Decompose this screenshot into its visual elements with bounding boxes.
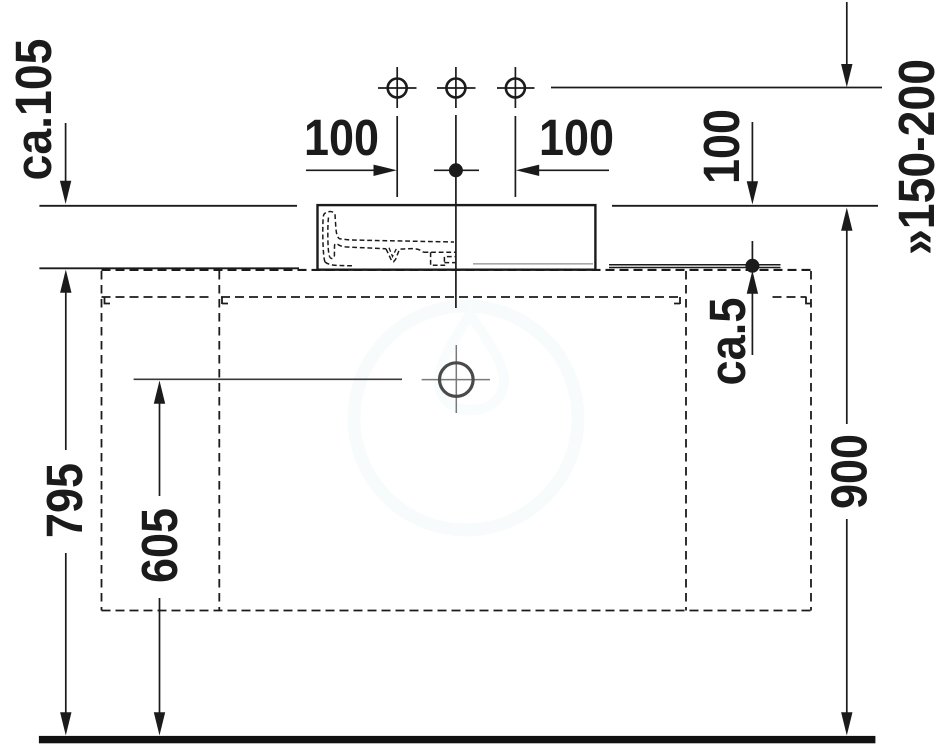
- faucet hole circle left: [388, 79, 407, 98]
- bracket hook outer left: [105, 297, 111, 304]
- countertop top line left: [39, 205, 297, 207]
- basin hidden profile: drain funnel V: [386, 249, 424, 262]
- basin inner shadow line: [473, 263, 593, 265]
- dim 795 arrowhead down: [60, 712, 71, 735]
- extension line left faucet: [396, 116, 398, 197]
- dim 900 arrowhead down: [841, 712, 852, 735]
- dim 100 right arrowhead: [516, 165, 539, 176]
- watermark ring: [354, 306, 578, 530]
- dim 795 upper line: [65, 292, 67, 450]
- floor bar: [39, 736, 876, 743]
- dim 795 arrowhead up: [60, 270, 71, 293]
- svg-text:900: 900: [821, 434, 878, 509]
- countertop underside line left: [39, 267, 299, 269]
- drain circle: [440, 363, 474, 397]
- basin hidden profile: inner wall + floor: [328, 218, 386, 259]
- dim ca.5 upper line: [751, 241, 753, 266]
- crosshair horizontal left circle: [378, 87, 417, 89]
- dim ca.105 line: [65, 123, 67, 181]
- crosshair vertical center circle: [455, 67, 457, 108]
- basin hidden profile: outer wall loop: [323, 212, 454, 262]
- console inner dashed top line: [102, 296, 807, 298]
- dim 795 lower line: [65, 553, 67, 714]
- basin hidden profile: trap steps: [424, 252, 457, 265]
- countertop top line right: [612, 205, 878, 207]
- svg-text:»150-200: »150-200: [888, 59, 945, 255]
- console outer dashed top: [102, 269, 812, 271]
- center datum dot: [449, 163, 463, 177]
- dim 605 reference line: [134, 378, 402, 380]
- dim 605 upper line: [159, 403, 161, 496]
- dim 150-200 line: [846, 2, 848, 65]
- dim ca.5 lower line: [751, 293, 753, 355]
- crosshair vertical left circle: [396, 67, 398, 108]
- dim ca.105 arrowhead: [60, 181, 71, 204]
- drain crosshair vertical: [455, 345, 457, 413]
- dim 605 arrowhead up: [154, 381, 165, 404]
- console dashed bottom: [102, 610, 812, 612]
- dim 900 upper line: [846, 230, 848, 424]
- dim 605 lower line: [159, 598, 161, 714]
- svg-text:795: 795: [36, 463, 93, 538]
- svg-text:ca.5: ca.5: [699, 298, 756, 386]
- center axis line: [455, 115, 457, 308]
- bracket notch left: [222, 297, 228, 304]
- svg-text:ca.105: ca.105: [5, 39, 62, 181]
- extension line right faucet: [514, 116, 516, 197]
- dim 100 right arrow line: [537, 169, 609, 171]
- svg-text:605: 605: [131, 508, 188, 583]
- crosshair horizontal right circle: [497, 87, 535, 89]
- faucet hole circle center: [446, 79, 465, 98]
- dim 100 vertical arrowhead: [747, 181, 758, 204]
- right ledge upper line: [609, 264, 781, 266]
- console inner dashed right vertical: [685, 271, 687, 611]
- bracket hook outer right: [806, 297, 811, 304]
- crosshair horizontal center circle: [437, 87, 476, 89]
- dim 100 left arrowhead: [374, 165, 397, 176]
- svg-text:100: 100: [539, 109, 614, 166]
- basin hidden profile: wall bottom: [325, 262, 352, 266]
- svg-text:100: 100: [693, 109, 750, 184]
- dim ca.5 arrowhead up: [747, 271, 758, 294]
- right ledge lower line: [609, 267, 781, 269]
- crosshair vertical right circle: [514, 67, 516, 108]
- dim 150-200 arrowhead: [841, 64, 852, 87]
- basin hidden profile: drain funnel inner V: [389, 248, 397, 257]
- dim 900 arrowhead up: [841, 208, 852, 231]
- dim 605 arrowhead down: [154, 712, 165, 735]
- dim 100 left arrow line: [306, 169, 376, 171]
- faucet reference line to right edge: [551, 87, 882, 89]
- console inner dashed left vertical: [218, 271, 220, 611]
- dim ca.5 datum dot: [745, 259, 759, 273]
- watermark drop: [439, 314, 504, 410]
- console outer dashed left: [101, 271, 103, 611]
- center datum dot line: [434, 169, 479, 171]
- console outer dashed right: [810, 271, 812, 611]
- dim 900 lower line: [846, 519, 848, 714]
- dim 100 vertical line: [751, 122, 753, 182]
- svg-text:100: 100: [304, 109, 379, 166]
- faucet hole circle right: [506, 79, 525, 98]
- washbasin body rectangle: [318, 205, 596, 270]
- drain crosshair horizontal: [422, 379, 490, 381]
- bracket notch right: [674, 297, 680, 304]
